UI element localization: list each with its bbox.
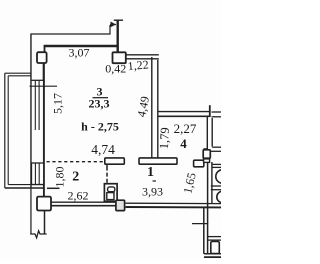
wall: room4 top wall [158, 111, 209, 113]
door: entrance door jamb box bottom-left [37, 197, 51, 211]
node: pier box top-right [113, 52, 126, 63]
node: break symbol [30, 231, 46, 238]
svg-text:1,22: 1,22 [127, 57, 149, 73]
wall: stub up at right end of room4 top wall [209, 105, 211, 117]
wire: thin line below wall right [192, 223, 208, 225]
wall: top wall of room 3 [44, 45, 119, 47]
node: tick at balcony bottom level [47, 187, 60, 189]
svg-text:3,07: 3,07 [69, 46, 90, 60]
node: riser circle 2 [217, 191, 229, 203]
node: dimension tick 5,17 [30, 85, 58, 87]
wall: stub between room1 and room3 [105, 158, 125, 164]
svg-text:1,79: 1,79 [157, 127, 172, 150]
node: ventilation block room 2 [104, 184, 117, 202]
wire: thin parapet outline with arrow, top [31, 25, 110, 188]
svg-text:1: 1 [147, 165, 154, 180]
door: balcony door hatch block [32, 163, 44, 185]
wall: long bottom wall right part [126, 202, 221, 204]
wall: room4 bottom-left segment [139, 158, 177, 164]
balcony outline [5, 72, 31, 74]
wire: stub to edge y236-240 [208, 236, 221, 238]
window: top-right window double line [126, 54, 159, 56]
wall: below door, with break [44, 211, 46, 234]
wall: jog left at y149 [204, 148, 208, 150]
svg-text:1,80: 1,80 [53, 167, 67, 188]
node: flat box below [204, 159, 210, 163]
svg-text:5,17: 5,17 [51, 93, 65, 114]
node: door jamb box on bottom wall [116, 200, 125, 210]
svg-text:2: 2 [72, 169, 79, 184]
wall: room4 left wall (4,49) [151, 57, 153, 159]
wall: room4 right wall [206, 117, 208, 149]
svg-text:23,3: 23,3 [89, 97, 110, 111]
wire: T-mast top right [116, 21, 118, 53]
wall: room4 bottom-right segment [194, 160, 204, 167]
svg-text:0,42: 0,42 [105, 61, 126, 75]
svg-text:4: 4 [180, 136, 187, 151]
wire: stub to edge y164-167 [213, 163, 222, 165]
svg-text:2,62: 2,62 [68, 189, 89, 203]
node: small box in right wall [203, 150, 210, 158]
node: riser circle 1 [216, 170, 230, 184]
svg-text:h - 2,75: h - 2,75 [81, 120, 119, 134]
wire: dashed partition room2/room1 [106, 164, 108, 170]
svg-text:2,27: 2,27 [174, 121, 197, 136]
svg-text:3,93: 3,93 [142, 185, 163, 199]
node: box bottom right [211, 241, 220, 253]
wall: bottom right corner [204, 253, 221, 255]
node: window pier box top-left [37, 52, 47, 63]
window: left window mullion lines [34, 80, 36, 130]
wire: dashed partition room3/room2 [47, 161, 104, 163]
node: small tick above 3,93 [153, 180, 157, 182]
wire: stub to edge y186-190 [211, 185, 221, 187]
window: left window band caps [31, 79, 45, 81]
wire: double line to right edge y147-151 [212, 146, 221, 148]
wall: right column verticals [207, 162, 209, 254]
svg-text:4,74: 4,74 [91, 142, 115, 157]
wall: long bottom wall left part [51, 201, 116, 203]
wall: stub below pier box [43, 63, 45, 80]
